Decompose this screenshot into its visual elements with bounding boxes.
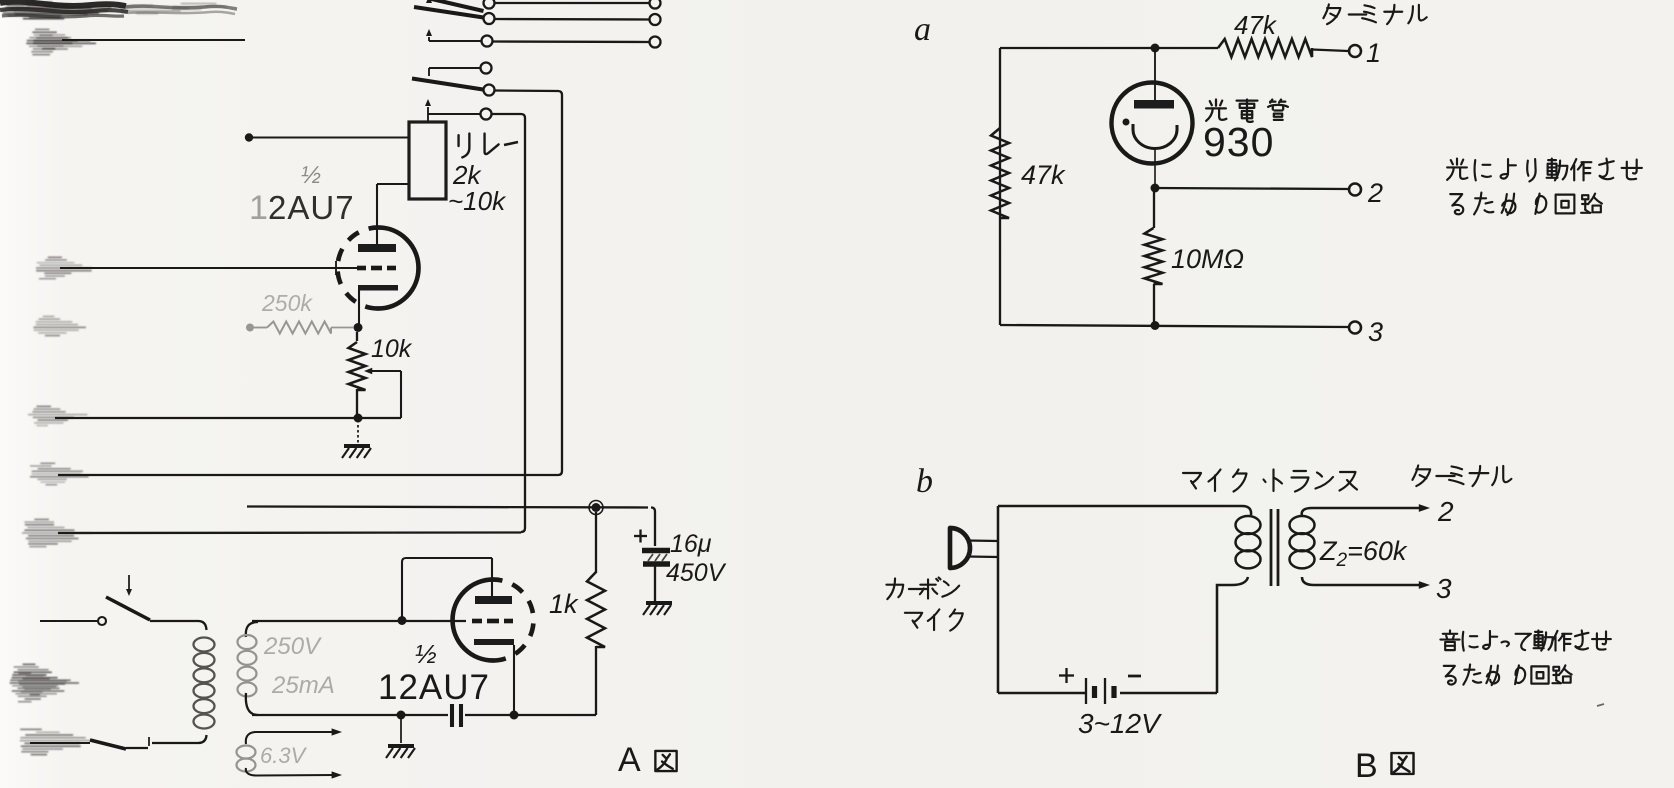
- svg-text:47k: 47k: [1021, 160, 1066, 190]
- svg-text:3~12V: 3~12V: [1078, 708, 1162, 739]
- svg-text:b: b: [916, 463, 933, 500]
- svg-text:A: A: [618, 741, 641, 779]
- svg-text:2: 2: [1367, 178, 1383, 208]
- svg-text:25mA: 25mA: [271, 672, 335, 699]
- svg-text:3: 3: [1436, 573, 1452, 604]
- svg-text:1k: 1k: [549, 589, 579, 619]
- svg-text:450V: 450V: [666, 559, 727, 587]
- svg-text:930: 930: [1203, 119, 1274, 165]
- svg-text:6.3V: 6.3V: [260, 743, 308, 768]
- svg-text:10MΩ: 10MΩ: [1171, 244, 1244, 274]
- svg-text:2AU7: 2AU7: [268, 189, 355, 226]
- svg-text:250k: 250k: [261, 290, 313, 316]
- svg-text:47k: 47k: [1234, 10, 1278, 40]
- svg-text:a: a: [914, 11, 931, 48]
- svg-text:1: 1: [1366, 38, 1381, 68]
- svg-text:10k: 10k: [371, 335, 413, 363]
- svg-text:½: ½: [415, 639, 437, 669]
- svg-text:250V: 250V: [263, 633, 322, 660]
- svg-text:½: ½: [301, 162, 321, 189]
- svg-text:12AU7: 12AU7: [378, 668, 490, 707]
- svg-text:2: 2: [1437, 496, 1454, 527]
- svg-text:3: 3: [1368, 317, 1383, 347]
- svg-text:Z2=60k: Z2=60k: [1319, 536, 1408, 571]
- svg-text:16μ: 16μ: [670, 530, 712, 558]
- svg-text:B: B: [1355, 747, 1378, 785]
- svg-text:~10k: ~10k: [448, 186, 507, 216]
- svg-text:1: 1: [249, 189, 270, 227]
